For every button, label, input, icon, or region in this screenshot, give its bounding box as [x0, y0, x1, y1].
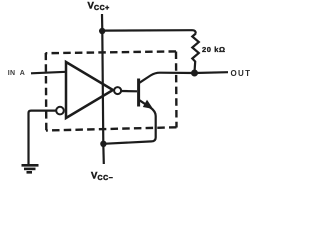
wire: top rail to resistor	[102, 30, 196, 33]
op-amp U1 (comparator triangle)	[66, 62, 113, 118]
node: VCC- junction	[100, 141, 106, 147]
resistor R1 20 kOhm	[192, 34, 199, 71]
svg-text:INA: INA	[8, 70, 25, 77]
transistor Q1 base wire	[121, 90, 137, 93]
ground	[22, 165, 39, 172]
input inversion bubble	[56, 107, 64, 115]
wire: ground branch to inverting input	[29, 111, 57, 165]
node: output junction	[191, 70, 198, 77]
transistor Q1 base bar	[137, 79, 140, 107]
package outline (dashed box)	[46, 51, 177, 130]
node: VCC+ top junction	[99, 28, 105, 34]
transistor Q1 emitter and return wire to VCC- rail	[103, 100, 155, 144]
svg-text:20 kΩ: 20 kΩ	[202, 45, 226, 54]
svg-text:VCC+: VCC+	[88, 1, 110, 13]
svg-text:VCC−: VCC−	[91, 171, 113, 183]
wire: output line to the right	[195, 71, 229, 74]
svg-text:OUT: OUT	[231, 69, 252, 78]
transistor Q1 emitter arrow	[143, 100, 153, 109]
wire VCC+ lead and VCC bus vertical	[102, 14, 104, 164]
output inversion bubble	[114, 87, 121, 94]
transistor Q1 collector to output node	[139, 73, 195, 84]
wire: input IN A	[31, 72, 66, 74]
